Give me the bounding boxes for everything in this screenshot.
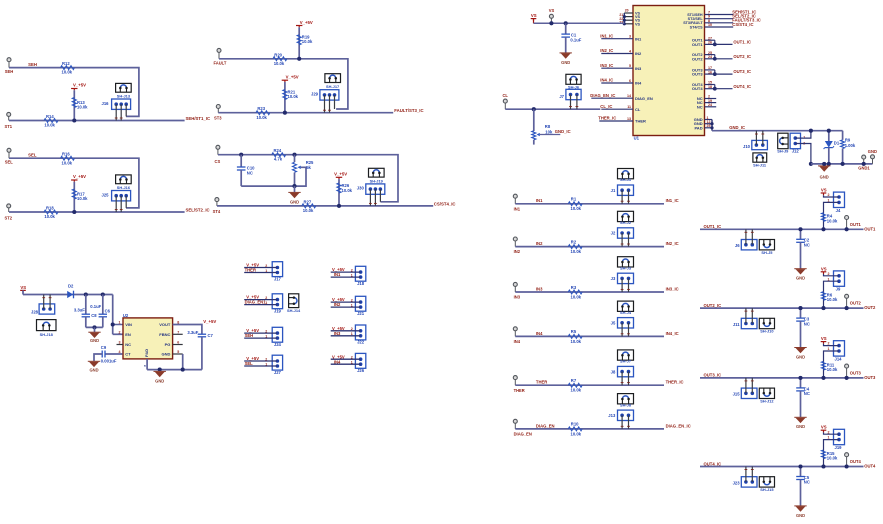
- svg-text:SH-J11: SH-J11: [753, 162, 767, 167]
- svg-text:OUT4: OUT4: [692, 86, 703, 91]
- svg-text:ST1: ST1: [5, 124, 13, 129]
- svg-text:VS: VS: [531, 13, 537, 18]
- U1 pin IN4 (IN4_IC): [600, 78, 642, 86]
- terminal OUT3: [845, 364, 849, 368]
- svg-text:3.3uF: 3.3uF: [74, 308, 85, 313]
- resistor R7 10.0k: [568, 383, 582, 387]
- U1 pin IN2 (IN2_IC): [600, 48, 642, 56]
- svg-text:SEL/ST2_IC: SEL/ST2_IC: [186, 207, 210, 212]
- svg-text:11: 11: [627, 105, 631, 109]
- shunt SH-J6: [566, 74, 581, 84]
- resistor R14 10.0k: [44, 119, 58, 123]
- resistor R5 10.0k: [568, 334, 582, 338]
- junction terminal OUT2: [845, 306, 849, 310]
- jumper J5 pin stems: [621, 323, 623, 337]
- ground GND (C2): [796, 269, 806, 274]
- svg-text:DIAG_EN_IC: DIAG_EN_IC: [590, 93, 615, 98]
- jumper J13: [618, 410, 634, 420]
- jumper J19 (DIAG_EN1): [244, 294, 282, 314]
- svg-text:J8: J8: [611, 369, 616, 374]
- wire THER: [515, 384, 664, 386]
- junction C3: [798, 306, 802, 310]
- jumper J15: [741, 388, 757, 398]
- U1 pin CL (CL_IC): [600, 104, 641, 112]
- shunt SH-J15: [759, 477, 774, 487]
- svg-text:C7: C7: [208, 333, 214, 338]
- svg-text:10.0k: 10.0k: [302, 39, 313, 44]
- terminal IN4: [513, 327, 517, 331]
- resistor R15 10.0k: [822, 450, 826, 459]
- svg-text:IN3: IN3: [334, 331, 341, 336]
- jumper J7 pin stems: [570, 95, 572, 110]
- resistor R20 10.0k: [273, 57, 287, 61]
- svg-text:OUT1_IC: OUT1_IC: [704, 224, 722, 229]
- shunt SH-J16: [116, 175, 132, 184]
- svg-text:6: 6: [629, 79, 631, 83]
- svg-text:26: 26: [708, 41, 712, 45]
- wire R26 pull-up: [338, 179, 340, 206]
- ground GND (C4): [796, 418, 806, 423]
- power VS flag (OUT2): [821, 271, 827, 273]
- jumper J15 pin stems: [745, 378, 747, 393]
- svg-text:C8: C8: [91, 313, 97, 318]
- ground GND (C1): [561, 53, 571, 58]
- wire VOUT: [173, 325, 202, 335]
- svg-text:PAD: PAD: [694, 125, 702, 130]
- capacitor C1 0.1uF: [565, 23, 567, 34]
- jumper J7: [566, 89, 581, 99]
- terminal ST3: [216, 105, 220, 109]
- wire VS to J14: [824, 344, 840, 346]
- svg-text:VS: VS: [821, 336, 827, 341]
- wire CS top: [218, 155, 398, 202]
- jumper J9: [834, 271, 845, 286]
- jumper J25 pin stems: [115, 196, 117, 212]
- svg-text:3: 3: [629, 35, 631, 39]
- block OUT3: [700, 336, 876, 429]
- svg-text:IN1_IC: IN1_IC: [600, 33, 613, 38]
- terminal CS: [216, 145, 220, 149]
- row IN2: [513, 211, 678, 254]
- svg-text:SEH: SEH: [245, 333, 254, 338]
- svg-text:5: 5: [629, 64, 631, 68]
- jumper J17 (THER): [244, 262, 282, 282]
- jumper J25: [112, 191, 131, 201]
- svg-text:J16: J16: [102, 101, 110, 106]
- svg-text:SH-J12: SH-J12: [760, 399, 774, 404]
- block FAULT/ST3: [214, 20, 424, 121]
- svg-text:R10: R10: [571, 422, 579, 427]
- junction C2: [798, 227, 802, 231]
- ground GND (R25): [294, 186, 296, 192]
- svg-text:2: 2: [265, 330, 267, 334]
- svg-text:10.0k: 10.0k: [44, 214, 55, 219]
- svg-text:OUT3: OUT3: [864, 375, 876, 380]
- IC U1: [633, 6, 705, 141]
- power VS flag (OUT1): [821, 192, 827, 194]
- U1 pin ST3/FAULT (FAULT/ST3_IC): [683, 18, 761, 26]
- svg-text:J22: J22: [357, 340, 365, 345]
- svg-text:SH-J19: SH-J19: [370, 179, 384, 184]
- jumper J28: [39, 304, 55, 314]
- junction GND bus: [158, 368, 162, 372]
- svg-text:DIAG_EN: DIAG_EN: [635, 96, 653, 101]
- svg-text:GND: GND: [868, 149, 877, 154]
- block SEH/ST1: [5, 58, 211, 129]
- wire J12 pin1: [795, 131, 811, 138]
- resistor R21 10.0k: [283, 90, 287, 100]
- jumper J5: [618, 318, 634, 328]
- junction C1: [564, 21, 568, 25]
- svg-text:J9: J9: [836, 287, 841, 292]
- shunt SH-J18: [37, 320, 57, 331]
- wire J19 pin1 to R15: [824, 440, 840, 467]
- svg-text:VS: VS: [549, 8, 555, 13]
- shunt SH-J12: [759, 388, 774, 398]
- potentiometer R8 10k: [533, 109, 535, 131]
- ground GND (input caps): [94, 327, 96, 332]
- jumper J24 (SEH): [244, 327, 282, 347]
- U1 pin IN3 (IN3_IC): [600, 63, 642, 71]
- jumper J11: [741, 318, 757, 328]
- capacitor C4 NC: [800, 378, 802, 388]
- svg-text:R14: R14: [46, 114, 54, 119]
- wire VS to U1: [533, 19, 535, 24]
- svg-text:10.0k: 10.0k: [827, 218, 838, 223]
- power VS flag (OUT4): [821, 429, 827, 431]
- svg-text:J5: J5: [611, 321, 616, 326]
- svg-text:PAD: PAD: [144, 349, 149, 357]
- wire OUT1_IC: [700, 228, 864, 230]
- capacitor C10 NC: [240, 155, 242, 167]
- capacitor C8 3.3uF: [85, 295, 87, 315]
- wire IN3: [515, 291, 664, 293]
- svg-text:NC: NC: [804, 321, 810, 326]
- jumper J12: [790, 133, 800, 149]
- svg-text:4.7k: 4.7k: [274, 157, 283, 162]
- svg-text:J19: J19: [274, 309, 282, 314]
- junction R9 bottom: [841, 162, 845, 166]
- capacitor C7 3.3uF: [198, 333, 206, 335]
- svg-text:18: 18: [708, 85, 712, 89]
- wire VS input: [22, 290, 24, 294]
- svg-text:NC: NC: [804, 391, 810, 396]
- svg-text:J27: J27: [274, 370, 282, 375]
- svg-text:10.0k: 10.0k: [44, 123, 55, 128]
- svg-text:THER_IC: THER_IC: [598, 116, 616, 121]
- svg-text:OUT3: OUT3: [850, 371, 862, 376]
- junction terminal OUT3: [845, 376, 849, 380]
- wire cap bottoms: [86, 326, 103, 328]
- U1 pins OUT1 (OUT1_IC): [692, 36, 751, 47]
- jumper J4: [834, 192, 845, 207]
- capacitor C5 NC: [800, 467, 802, 477]
- resistor R9 1.00k: [842, 131, 844, 140]
- terminal VS: [549, 14, 553, 18]
- svg-text:2: 2: [265, 357, 267, 361]
- svg-text:VS: VS: [635, 22, 641, 26]
- svg-text:J2: J2: [611, 231, 616, 236]
- junction J12 pin1: [809, 129, 813, 133]
- svg-text:10.0k: 10.0k: [571, 388, 582, 393]
- svg-text:IN3: IN3: [635, 66, 642, 71]
- resistor R11 10.0k: [822, 361, 826, 370]
- svg-text:25: 25: [707, 124, 711, 128]
- power VS flag: [20, 289, 26, 291]
- junction D1 bottom: [827, 162, 831, 166]
- wire GND pin down: [182, 354, 184, 370]
- wire IN2: [515, 246, 664, 248]
- terminal SEL: [7, 148, 11, 152]
- junction GND/loop: [292, 184, 296, 188]
- svg-text:IN2: IN2: [536, 241, 543, 246]
- svg-text:10.0k: 10.0k: [827, 297, 838, 302]
- svg-text:IN1_IC: IN1_IC: [666, 198, 679, 203]
- svg-text:SEH: SEH: [5, 69, 13, 74]
- svg-text:OUT4: OUT4: [864, 464, 876, 469]
- svg-text:SH-J9: SH-J9: [777, 149, 789, 154]
- svg-text:SH-J3: SH-J3: [620, 265, 632, 270]
- jumper J2: [618, 228, 634, 238]
- wire IN1: [515, 203, 664, 205]
- svg-text:DIAG_EN_IC: DIAG_EN_IC: [666, 423, 691, 428]
- svg-text:U2: U2: [123, 313, 129, 318]
- shunt SH-J9: [778, 133, 788, 149]
- svg-text:ST2: ST2: [5, 215, 13, 220]
- resistor R10 10.0k: [568, 427, 582, 431]
- wire pull-up: [73, 90, 75, 120]
- shunt SH-J5: [759, 240, 774, 250]
- svg-text:OUT4_IC: OUT4_IC: [704, 461, 722, 466]
- jumper J11 pin stems: [745, 308, 747, 323]
- svg-text:J7: J7: [559, 94, 564, 99]
- junction C5: [798, 464, 802, 468]
- resistor R13 10.0k: [72, 98, 76, 108]
- resistor R16 10.0k: [61, 156, 75, 160]
- wire pull-up: [73, 182, 75, 212]
- svg-text:FAULT/ST3_IC: FAULT/ST3_IC: [394, 108, 423, 113]
- shunt SH-J14: [289, 294, 299, 308]
- wire PAD stub: [146, 359, 148, 370]
- block OUT2: [700, 266, 876, 359]
- wire FAULT top: [219, 59, 348, 109]
- jumper J8 pin stems: [621, 372, 623, 386]
- junction R26/bottom wire: [337, 204, 341, 208]
- power V_+5V (R19): [296, 25, 302, 27]
- jumper J29: [320, 90, 339, 100]
- svg-text:R27: R27: [304, 199, 312, 204]
- row IN3: [513, 257, 678, 300]
- svg-text:THER: THER: [514, 388, 525, 393]
- svg-text:J30: J30: [357, 186, 365, 191]
- U1 pin ST4/CS (CS/ST4_IC): [690, 22, 754, 30]
- junction pull-up/bottom: [72, 118, 76, 122]
- junction R15: [821, 464, 825, 468]
- wire R21 pull-up: [284, 82, 286, 113]
- terminal DIAG_EN: [513, 419, 517, 423]
- svg-text:OUT4_IC: OUT4_IC: [733, 84, 751, 89]
- jumper J19: [834, 429, 845, 444]
- junction terminal OUT1: [845, 227, 849, 231]
- wire VS to J4: [824, 195, 840, 197]
- svg-text:IN4: IN4: [536, 331, 543, 336]
- jumper J6 pin stems: [745, 229, 747, 244]
- wire IN4: [515, 335, 664, 337]
- U2 right stubs: [173, 333, 183, 335]
- ground GND (C5): [796, 506, 806, 511]
- svg-text:GND: GND: [90, 338, 99, 343]
- junction C6: [101, 292, 105, 296]
- terminal IN2: [513, 237, 517, 241]
- zener diode D1: [828, 131, 830, 141]
- svg-text:10.0k: 10.0k: [77, 104, 88, 109]
- svg-text:OUT1_IC: OUT1_IC: [733, 40, 751, 45]
- ground GND (CT): [89, 362, 99, 367]
- svg-text:GND: GND: [796, 513, 805, 518]
- svg-text:GND: GND: [796, 354, 805, 359]
- svg-text:10.0k: 10.0k: [571, 249, 582, 254]
- svg-text:R1: R1: [571, 197, 577, 202]
- svg-text:GND: GND: [796, 276, 805, 281]
- svg-text:IN1: IN1: [334, 272, 341, 277]
- resistor R24 4.7k: [272, 153, 286, 157]
- svg-text:SH-J10: SH-J10: [760, 329, 773, 334]
- svg-text:R23: R23: [257, 106, 265, 111]
- junction GND caps: [92, 325, 96, 329]
- svg-text:J18: J18: [357, 281, 365, 286]
- ground GND (rail): [823, 164, 825, 166]
- U1 NC pins: [697, 95, 716, 110]
- wire ST3 bottom: [218, 112, 393, 114]
- svg-text:THER_IC: THER_IC: [666, 380, 684, 385]
- svg-text:2: 2: [351, 299, 353, 303]
- row THER: [513, 350, 683, 393]
- svg-text:IN3: IN3: [536, 286, 543, 291]
- svg-text:SH-J17: SH-J17: [326, 84, 339, 89]
- terminal IN1: [513, 194, 517, 198]
- capacitor C2 NC: [800, 229, 802, 239]
- svg-text:CS: CS: [215, 159, 221, 164]
- jumper J16 pin stems: [115, 104, 117, 120]
- svg-text:J29: J29: [311, 92, 319, 97]
- jumper J30 pin stems: [369, 189, 371, 206]
- svg-text:GND: GND: [290, 199, 299, 204]
- svg-text:IN2_IC: IN2_IC: [666, 241, 679, 246]
- U1 GND/PAD pins: [694, 116, 714, 131]
- svg-text:CT: CT: [125, 352, 131, 357]
- jumper J18 (IN1): [331, 266, 366, 286]
- svg-text:NC: NC: [804, 480, 810, 485]
- svg-text:0.1uF: 0.1uF: [90, 304, 101, 309]
- U1 pin ST2/SEL (SEL/ST2_IC): [688, 14, 756, 22]
- junction R21/bottom wire: [283, 111, 287, 115]
- jumper J2 pin stems: [621, 233, 623, 247]
- power V_+5V (R21): [282, 79, 288, 81]
- jumper J10: [752, 140, 768, 149]
- svg-text:1.00k: 1.00k: [845, 143, 856, 148]
- svg-text:10.0k: 10.0k: [256, 115, 267, 120]
- svg-text:IN2: IN2: [514, 249, 521, 254]
- power V_+5V: [71, 179, 77, 181]
- svg-text:SH-J7: SH-J7: [620, 359, 631, 364]
- terminal ST1: [7, 112, 11, 116]
- wire GND_IC: [712, 130, 843, 132]
- wire CT to GND: [94, 354, 102, 361]
- svg-text:16: 16: [708, 70, 712, 74]
- svg-text:SH-J2: SH-J2: [620, 220, 632, 225]
- junction D1 top: [827, 129, 831, 133]
- shunt SH-J8: [618, 394, 634, 404]
- svg-text:J21: J21: [357, 311, 365, 316]
- svg-text:D1: D1: [834, 141, 840, 146]
- resistor R12 10.0k: [61, 66, 75, 70]
- terminal OUT1: [845, 216, 849, 220]
- svg-text:V_+5V: V_+5V: [300, 20, 313, 25]
- svg-text:1: 1: [351, 304, 353, 308]
- svg-text:SH-J15: SH-J15: [760, 487, 774, 492]
- power V_+5V (R26): [336, 176, 342, 178]
- U1 pin IN1 (IN1_IC): [600, 33, 642, 41]
- junction VS terminal: [549, 21, 553, 25]
- resistor R23 10.0k: [256, 111, 270, 115]
- svg-text:SEL: SEL: [245, 361, 254, 366]
- svg-text:IN1: IN1: [536, 198, 543, 203]
- svg-text:10.0k: 10.0k: [571, 339, 582, 344]
- svg-text:14: 14: [627, 94, 631, 98]
- svg-text:SH-J18: SH-J18: [40, 332, 54, 337]
- svg-text:IN4_IC: IN4_IC: [666, 331, 679, 336]
- capacitor C3 NC: [800, 308, 802, 318]
- svg-text:10.0k: 10.0k: [571, 431, 582, 436]
- svg-text:IN3: IN3: [514, 295, 521, 300]
- svg-text:THER: THER: [536, 380, 547, 385]
- shunt SH-J10: [759, 318, 774, 328]
- resistor R17 10.0k: [72, 189, 76, 199]
- block regulator U2: [20, 284, 216, 384]
- jumper J23 pin stems: [745, 467, 747, 482]
- svg-text:1: 1: [351, 274, 353, 278]
- block SEL/ST2: [5, 148, 210, 220]
- jumper J8: [618, 366, 634, 376]
- svg-text:ST4/CS: ST4/CS: [690, 25, 703, 29]
- diode D2: [67, 291, 73, 298]
- svg-text:10.0k: 10.0k: [77, 196, 88, 201]
- ground GND (C3): [796, 348, 806, 353]
- row DIAG_EN: [513, 394, 690, 437]
- jumper J16: [112, 99, 131, 109]
- svg-text:10.0k: 10.0k: [62, 70, 73, 75]
- svg-text:J15: J15: [733, 392, 741, 397]
- svg-text:13: 13: [627, 117, 631, 121]
- svg-text:OUT3_IC: OUT3_IC: [704, 373, 722, 378]
- terminal IN3: [513, 282, 517, 286]
- svg-text:SEH/ST1_IC: SEH/ST1_IC: [186, 116, 211, 121]
- wire VIN: [112, 295, 114, 335]
- svg-text:C9: C9: [101, 345, 107, 350]
- svg-text:J17: J17: [274, 276, 282, 281]
- svg-text:2: 2: [351, 327, 353, 331]
- svg-text:DIAG_EN1: DIAG_EN1: [245, 300, 267, 305]
- svg-text:SH-J13: SH-J13: [117, 94, 131, 99]
- svg-text:1: 1: [119, 321, 121, 325]
- svg-text:OUT2: OUT2: [864, 305, 876, 310]
- svg-text:THER: THER: [635, 119, 646, 124]
- svg-text:OUT4: OUT4: [850, 459, 862, 464]
- svg-text:1: 1: [265, 269, 267, 273]
- resistor R2 10.0k: [568, 245, 582, 249]
- U1 VS pins: [619, 9, 640, 27]
- svg-text:J10: J10: [743, 144, 751, 149]
